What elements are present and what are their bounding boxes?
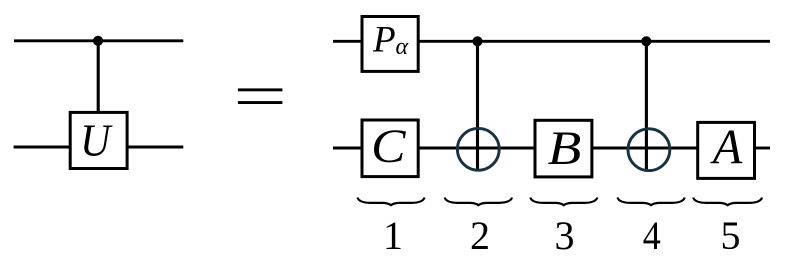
label B: [548, 122, 582, 175]
number 4: [643, 214, 661, 258]
label A: [710, 120, 742, 175]
svg-text:4: 4: [643, 214, 661, 257]
target circle of second CNOT: [628, 129, 670, 171]
svg-text:α: α: [396, 34, 409, 60]
gate box B: [535, 120, 592, 177]
wire: left circuit bottom qubit, right segment: [127, 146, 183, 149]
number 3: [555, 213, 575, 258]
gate box P_alpha: [362, 17, 418, 72]
number 5: [721, 213, 741, 258]
wire: right circuit top qubit, main segment: [418, 40, 770, 43]
wire: right circuit bottom qubit, left stub: [333, 147, 362, 150]
underbrace 2: [445, 198, 512, 206]
label U: [80, 116, 113, 166]
gate box A: [698, 122, 755, 178]
svg-text:B: B: [548, 122, 582, 175]
number 2: [470, 213, 490, 258]
wire: right circuit bottom qubit, right stub: [755, 147, 771, 150]
svg-text:A: A: [710, 120, 742, 175]
label C: [371, 120, 406, 173]
control dot of second CNOT: [641, 36, 651, 46]
wire: left circuit bottom qubit, left segment: [14, 146, 71, 149]
underbrace 1: [358, 198, 425, 206]
wire: right circuit bottom qubit, between C and B (through first target): [418, 147, 535, 150]
wire: left circuit top qubit: [14, 39, 183, 42]
svg-text:5: 5: [721, 213, 741, 257]
svg-text:U: U: [80, 116, 113, 166]
control dot on left circuit: [93, 36, 103, 46]
svg-text:P: P: [372, 20, 396, 61]
underbrace 4: [618, 198, 685, 206]
control dot of first CNOT: [472, 36, 482, 46]
equals sign: [238, 88, 283, 104]
svg-text:1: 1: [383, 213, 403, 257]
underbrace 3: [530, 198, 597, 206]
svg-text:3: 3: [555, 213, 575, 257]
wire: first CNOT vertical line: [476, 41, 479, 171]
gate box U: [70, 112, 127, 168]
wire: second CNOT vertical line: [645, 41, 648, 172]
number 1: [383, 213, 403, 258]
underbrace 5: [693, 198, 762, 206]
label P with subscript alpha: [372, 20, 409, 61]
wire: right circuit top qubit, left stub: [333, 40, 362, 43]
wire: control vertical line of controlled-U: [97, 41, 100, 113]
svg-text:C: C: [371, 120, 406, 173]
wire: right circuit bottom qubit, between B and A (through second target): [592, 147, 698, 150]
target circle of first CNOT: [457, 128, 499, 170]
svg-text:2: 2: [470, 213, 490, 257]
gate box C: [362, 120, 418, 177]
